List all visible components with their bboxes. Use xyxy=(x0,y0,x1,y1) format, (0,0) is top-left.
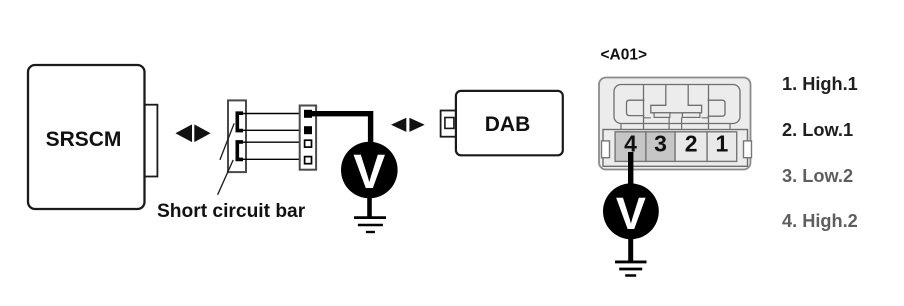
leader line to short circuit bar 2 xyxy=(218,160,234,195)
svg-text:1. High.1: 1. High.1 xyxy=(782,74,858,94)
wire bracket2 to pin 4 xyxy=(243,158,305,160)
short circuit bar 2 xyxy=(237,142,243,160)
svg-text:3. Low.2: 3. Low.2 xyxy=(782,166,853,186)
SRSCM module box U1 xyxy=(28,65,145,209)
hood-to-row ticks xyxy=(621,124,730,130)
ground 2 xyxy=(615,262,647,276)
wire V1 to ground xyxy=(367,196,372,217)
wire bracket1 to pin 2 xyxy=(243,129,305,131)
hood centre lower tab xyxy=(669,117,682,129)
svg-text:2: 2 xyxy=(685,131,698,157)
cavity 3 xyxy=(646,131,675,162)
SRSCM connector tab xyxy=(144,105,157,177)
connector A01 outer housing xyxy=(599,78,751,170)
pin 4 (open) xyxy=(305,157,312,164)
leader line to short circuit bar 1 xyxy=(220,123,234,160)
svg-text:3: 3 xyxy=(654,131,667,157)
harness connector housing xyxy=(300,106,316,170)
hood right step detail xyxy=(708,100,726,116)
DAB module box xyxy=(456,91,563,155)
svg-text:V: V xyxy=(616,188,646,239)
DAB connector tab xyxy=(441,111,457,137)
voltmeter V2 xyxy=(603,183,659,239)
short circuit bar 1 xyxy=(237,113,243,130)
probe wire from cavity 4 to voltmeter V2 xyxy=(628,152,633,185)
pin 2 (filled) xyxy=(304,126,312,134)
svg-text:4. High.2: 4. High.2 xyxy=(782,211,858,231)
hood centre tee detail xyxy=(651,85,702,113)
hood divider left xyxy=(643,85,645,130)
hood centre notch right xyxy=(682,113,700,118)
connector A01 hood xyxy=(614,85,740,124)
probe wire from pin 1 to voltmeter V1 xyxy=(311,114,371,143)
hood divider right xyxy=(708,85,710,130)
svg-text:<A01>: <A01> xyxy=(601,47,648,64)
hood centre notch left xyxy=(654,113,670,118)
svg-text:2. Low.1: 2. Low.1 xyxy=(782,120,853,140)
wire bracket2 to pin 3 xyxy=(243,141,305,143)
short-circuit connector housing xyxy=(228,100,246,172)
cavity 4 xyxy=(615,131,646,162)
hood left step detail xyxy=(627,100,645,115)
hood centre section bottom edges xyxy=(644,117,709,119)
wire V2 to ground xyxy=(628,237,633,261)
cavity 1 xyxy=(707,131,737,162)
housing ear left xyxy=(602,141,610,158)
svg-text:DAB: DAB xyxy=(485,113,531,136)
terminal row box xyxy=(603,130,748,167)
svg-text:V: V xyxy=(353,146,385,199)
wire bracket1 to pin 1 xyxy=(243,113,305,115)
voltmeter V1 xyxy=(341,142,398,199)
svg-text:Short circuit bar: Short circuit bar xyxy=(157,201,306,222)
pin 1 (filled) xyxy=(304,110,312,118)
svg-text:1: 1 xyxy=(716,131,729,157)
double arrow between SRSCM and short-circuit connector xyxy=(175,124,210,142)
pin 3 (open) xyxy=(305,140,312,147)
housing ear right xyxy=(744,141,752,158)
double arrow between voltmeter and DAB xyxy=(391,118,425,132)
svg-text:SRSCM: SRSCM xyxy=(46,128,122,151)
ground 1 xyxy=(354,218,386,232)
cavity 2 xyxy=(675,131,707,162)
